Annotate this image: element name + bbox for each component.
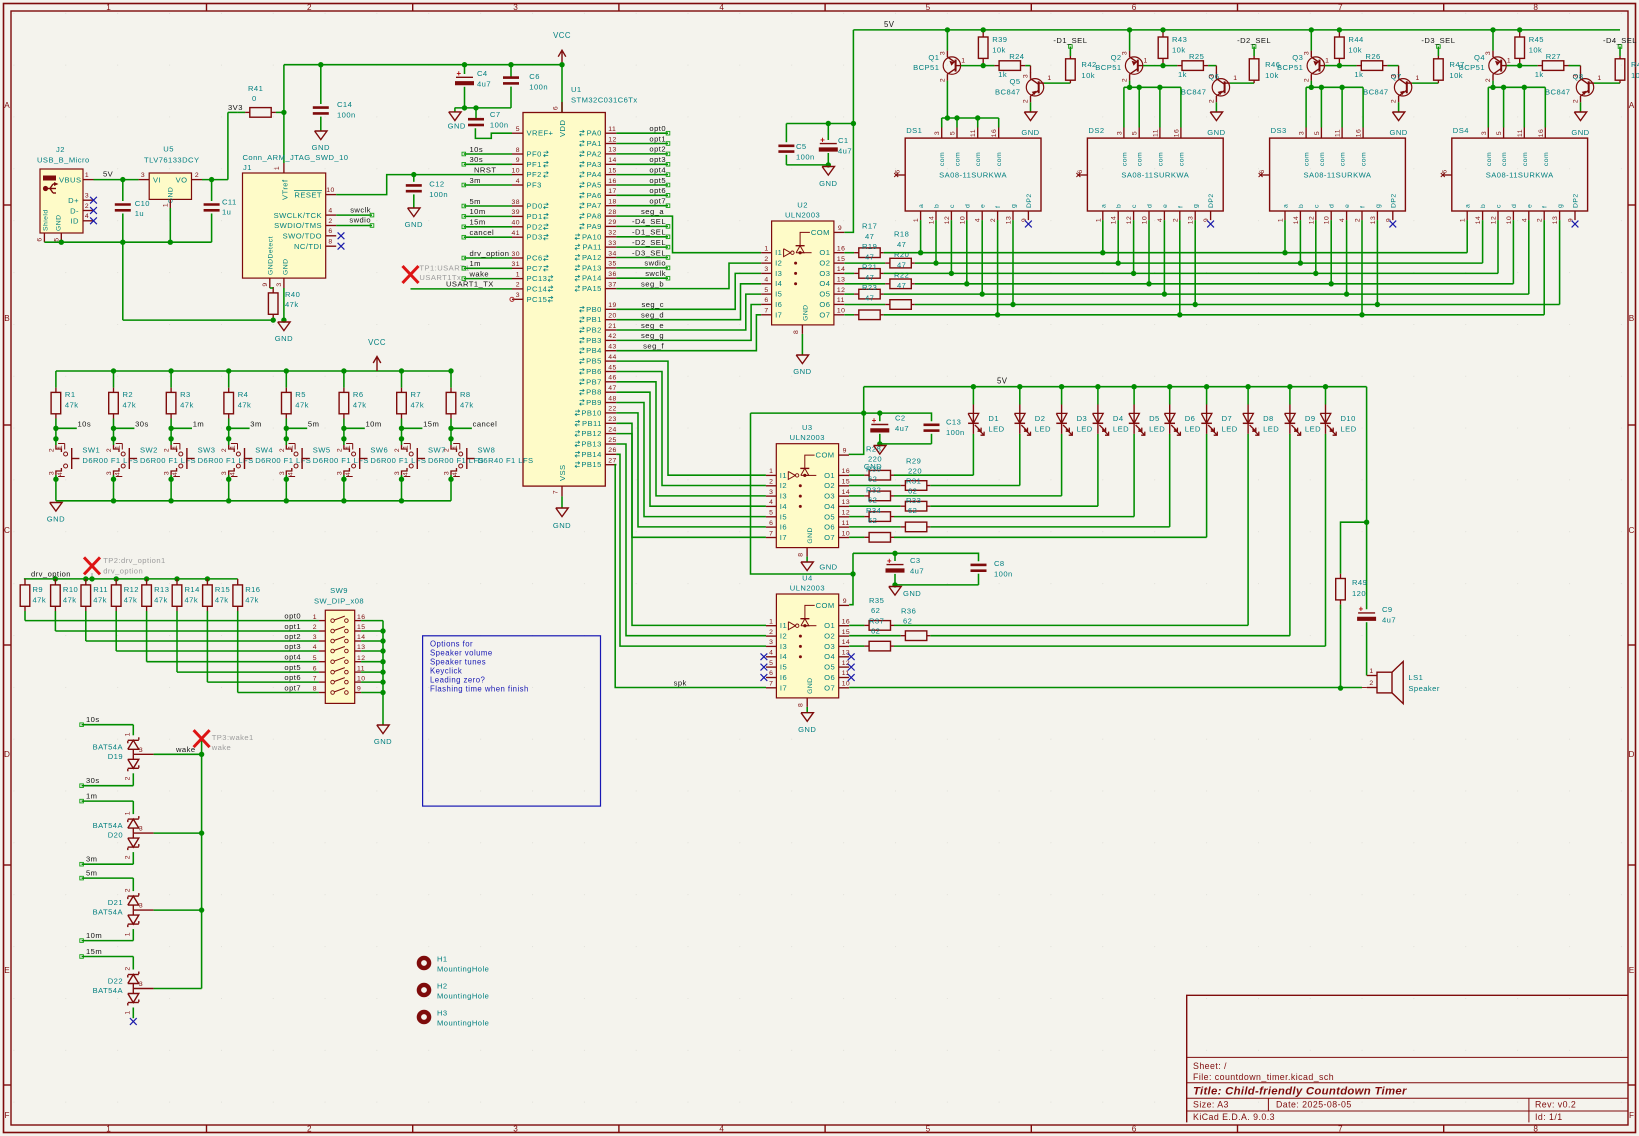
svg-text:31: 31 [512,261,520,268]
svg-text:11: 11 [1517,129,1524,137]
svg-text:4: 4 [1157,218,1164,222]
junction sw vcc 2 [168,368,173,373]
svg-text:-D1_SEL: -D1_SEL [1053,36,1087,45]
svg-text:swdio: swdio [644,259,666,268]
svg-text:20: 20 [608,313,616,320]
svg-text:GND: GND [56,215,63,231]
svg-text:5: 5 [1314,131,1321,135]
svg-text:PB11: PB11 [582,419,602,428]
svg-text:R1: R1 [65,390,76,399]
svg-text:Q3: Q3 [1292,53,1303,62]
svg-text:D6R00 F1 LFS: D6R00 F1 LFS [140,456,196,465]
junction seg row 7 DS2 [1177,312,1182,317]
wire seg row 6 [915,304,1560,306]
svg-text:Options for: Options for [430,640,473,649]
svg-text:GND: GND [807,527,814,543]
wire label 3m diode [80,855,134,866]
resistor R46 10k sel [1249,56,1280,83]
svg-text:PD2: PD2 [527,222,543,231]
svg-text:2: 2 [939,78,946,82]
svg-text:13: 13 [842,499,850,506]
resistor R24 1k [983,52,1030,79]
svg-text:PA5: PA5 [587,181,602,190]
wire label 10s U1 [462,145,512,156]
svg-text:5: 5 [764,287,768,294]
svg-text:D5: D5 [1149,414,1160,423]
ground Q5 [1021,112,1039,137]
transistor Q3 BCP51 [1277,51,1329,83]
svg-text:47k: 47k [65,401,79,410]
svg-text:16: 16 [1356,129,1363,137]
svg-text:3V3: 3V3 [228,103,243,112]
svg-text:3: 3 [764,266,768,273]
svg-text:SW8: SW8 [478,446,496,455]
svg-text:10s: 10s [78,420,92,429]
svg-text:47: 47 [865,294,874,303]
svg-text:R22: R22 [894,271,909,280]
svg-text:Q1: Q1 [928,53,939,62]
wire DS1 seg drop 7 [997,220,999,315]
wire label 1m sw [168,420,204,442]
svg-text:13: 13 [1006,216,1013,224]
svg-text:drv_option: drv_option [31,570,71,579]
svg-text:33: 33 [608,240,616,247]
svg-text:PA13: PA13 [582,263,602,272]
svg-text:15: 15 [357,624,365,631]
resistor R16 47k [233,579,261,693]
junction J1 gnd b [281,317,286,322]
svg-text:I1: I1 [780,471,787,480]
capacitor C3 [853,551,924,585]
svg-text:5: 5 [1132,131,1139,135]
svg-text:I2: I2 [780,632,787,641]
svg-text:VDD: VDD [558,120,567,137]
resistor R26 1k [1339,52,1398,79]
svg-text:R10: R10 [63,585,78,594]
svg-text:PD1: PD1 [527,212,543,221]
svg-text:e: e [1162,204,1169,208]
svg-text:1: 1 [345,445,352,449]
svg-text:7: 7 [553,490,560,494]
svg-text:R36: R36 [901,607,916,616]
svg-text:c: c [1313,204,1320,208]
svg-text:4: 4 [975,218,982,222]
svg-text:12: 12 [944,216,951,224]
svg-text:O4: O4 [824,502,835,511]
svg-text:BCP51: BCP51 [1095,63,1121,72]
svg-text:GND: GND [864,462,882,471]
svg-text:E: E [4,966,10,975]
wire label -D4_SEL U1 [616,217,670,228]
junction seg row 1 DS2 [1100,250,1105,255]
svg-text:MountingHole: MountingHole [437,1019,489,1028]
svg-text:5m: 5m [86,869,97,878]
svg-text:1: 1 [230,445,237,449]
svg-text:2: 2 [221,448,228,452]
svg-text:3: 3 [1481,131,1488,135]
svg-text:A: A [4,101,10,110]
svg-text:O3: O3 [819,269,830,278]
wire label 5m sw [284,420,320,442]
wire DS1 seg drop 2 [935,220,937,263]
svg-text:f: f [1542,206,1549,208]
wire seg row 4 [915,283,1514,285]
svg-text:I2: I2 [775,259,782,268]
svg-text:10: 10 [1142,216,1149,224]
capacitor C10 [115,180,150,243]
svg-text:PA8: PA8 [587,212,602,221]
diode D22 BAT54A [93,957,154,1019]
svg-text:5: 5 [313,655,317,662]
wire PB10 to U3 I6 [616,413,766,527]
wire D9 cathode [1289,434,1291,636]
svg-text:47k: 47k [215,596,229,605]
label R28 [866,445,882,464]
junction seg row 5 DS2 [1162,291,1167,296]
svg-text:15m: 15m [423,420,439,429]
svg-text:3: 3 [1573,74,1580,78]
wire D8 cathode [1247,434,1249,626]
svg-text:3: 3 [139,826,143,833]
ground Q8 [1571,112,1589,137]
svg-text:4: 4 [115,472,122,476]
svg-text:BAT54A: BAT54A [93,821,124,830]
svg-text:1: 1 [115,445,122,449]
wire label opt0 U1 [616,124,670,135]
svg-text:GND: GND [168,187,175,203]
svg-text:47k: 47k [460,401,474,410]
svg-text:14: 14 [1475,216,1482,224]
wire supply cross [751,412,880,414]
svg-text:com: com [1178,152,1185,166]
svg-text:opt6: opt6 [649,186,666,195]
svg-text:10m: 10m [86,931,102,940]
resistor R15 47k [203,579,231,682]
svg-text:4u7: 4u7 [477,80,491,89]
wire label 15m diode [80,947,134,958]
svg-text:11: 11 [1335,129,1342,137]
svg-text:cancel: cancel [473,420,498,429]
svg-text:3: 3 [85,193,89,200]
svg-text:10: 10 [326,187,334,194]
svg-text:1: 1 [1143,58,1147,65]
svg-text:R39: R39 [992,35,1007,44]
svg-text:17: 17 [608,188,616,195]
resistor R6 47k [339,371,366,428]
svg-text:1: 1 [961,58,965,65]
driver U2 ULN2003 [761,201,845,335]
no-connect DS2 DP2 [1207,221,1214,228]
svg-text:GND: GND [312,143,330,152]
svg-text:14: 14 [929,216,936,224]
wire label 30s U1 [462,155,512,166]
svg-text:O7: O7 [824,533,835,542]
svg-text:I4: I4 [775,279,782,288]
wire label -D3_SEL U1 [616,248,670,259]
svg-text:47k: 47k [124,596,138,605]
svg-text:14: 14 [842,639,850,646]
svg-text:3: 3 [221,471,228,475]
wire label opt3 U1 [616,155,670,166]
svg-text:1: 1 [1507,58,1511,65]
svg-text:I4: I4 [780,502,787,511]
svg-text:1: 1 [57,445,64,449]
svg-text:47: 47 [608,385,616,392]
wire com bus DS4 [1488,85,1545,139]
no-connect DS4 DP2 [1572,221,1579,228]
svg-text:9: 9 [843,598,847,605]
resistor R10 47k [51,579,79,631]
svg-text:SW9: SW9 [330,586,348,595]
svg-text:d: d [964,204,971,208]
wire label 5m diode [80,869,134,880]
svg-text:R43: R43 [1172,35,1187,44]
svg-text:1: 1 [1233,75,1237,82]
svg-text:O2: O2 [824,632,835,641]
svg-text:PB1: PB1 [586,315,602,324]
svg-text:3: 3 [139,747,143,754]
svg-text:1k: 1k [1354,70,1363,79]
wire label 10m U1 [462,207,512,218]
svg-text:USART1_TX: USART1_TX [446,280,494,289]
svg-text:VREF+: VREF+ [527,129,554,138]
svg-text:7: 7 [313,675,317,682]
wire RESET to NRST [336,175,512,195]
switch SW7 [394,428,484,501]
resistor R11 47k [81,579,108,641]
label R30 [866,465,881,484]
wire -D4_SEL label stub [1603,36,1637,56]
svg-text:O3: O3 [824,642,835,651]
junction seg row 3 DS3 [1313,271,1318,276]
resistor R18 47 [844,258,914,268]
svg-text:O2: O2 [819,259,830,268]
svg-text:2: 2 [1303,78,1310,82]
svg-text:I6: I6 [775,300,782,309]
svg-text:C: C [4,526,10,535]
svg-text:ID: ID [71,217,80,226]
svg-text:+: + [820,135,825,144]
svg-text:2: 2 [1485,78,1492,82]
svg-text:PA1: PA1 [587,139,602,148]
svg-text:BCP51: BCP51 [1459,63,1485,72]
svg-text:DP2: DP2 [1208,193,1215,208]
svg-text:O2: O2 [824,481,835,490]
svg-text:10m: 10m [470,207,486,216]
svg-text:1: 1 [516,271,520,278]
svg-text:GND: GND [283,259,290,275]
label R22 [894,271,909,291]
svg-text:C6: C6 [529,72,540,81]
svg-text:seg_g: seg_g [641,331,664,340]
wire gnd drop left [123,242,273,320]
svg-text:STM32C031C6Tx: STM32C031C6Tx [571,96,638,105]
svg-text:47: 47 [865,273,874,282]
svg-text:4: 4 [230,472,237,476]
wire drv_option bus [24,578,238,580]
wire Q2 collector bus [1129,81,1131,88]
svg-text:PB12: PB12 [581,429,601,438]
svg-text:62: 62 [871,627,880,636]
svg-text:5V: 5V [884,20,895,29]
svg-text:PB4: PB4 [586,346,602,355]
svg-text:I7: I7 [780,533,787,542]
svg-text:R15: R15 [215,585,230,594]
svg-text:4: 4 [769,650,773,657]
svg-text:3: 3 [139,903,143,910]
svg-text:10k: 10k [1172,46,1186,55]
transistor Q8 BC847 [1545,72,1602,103]
svg-text:D9: D9 [1305,414,1316,423]
svg-text:R6: R6 [353,390,364,399]
svg-text:VI: VI [153,176,161,185]
connector J1 Conn_ARM_JTAG_SWD_10 [243,153,349,288]
svg-text:H2: H2 [437,982,448,991]
svg-text:swdio: swdio [349,216,371,225]
wire label cancel U1 [462,228,512,239]
svg-text:12: 12 [837,287,845,294]
svg-text:9: 9 [1203,218,1210,222]
svg-text:24: 24 [608,426,616,433]
svg-text:47: 47 [865,232,874,241]
svg-text:com: com [1522,152,1529,166]
svg-text:9: 9 [838,225,842,232]
svg-text:O1: O1 [819,248,830,257]
svg-text:opt5: opt5 [649,176,666,185]
ground Q6 [1207,112,1225,137]
svg-text:R24: R24 [1009,52,1024,61]
svg-text:3: 3 [279,471,286,475]
svg-text:2: 2 [85,203,89,210]
svg-text:Leading zero?: Leading zero? [430,676,485,685]
svg-text:220: 220 [908,467,922,476]
svg-text:PB10: PB10 [581,408,601,417]
mounting hole H3 [417,1009,490,1028]
svg-text:I5: I5 [780,512,787,521]
wire VBUS 5V [94,170,139,180]
display DS1 SA08-11SURKWA [894,126,1041,224]
transistor Q2 BCP51 [1095,51,1147,83]
svg-text:2: 2 [125,888,132,892]
svg-text:I3: I3 [780,642,787,651]
svg-text:34: 34 [608,250,616,257]
svg-text:H1: H1 [437,955,448,964]
svg-text:13: 13 [837,277,845,284]
wire D4 cathode [1097,434,1099,506]
ground C4C6 [448,108,466,131]
mcu U1 STM32C031C6Tx [512,85,638,496]
svg-text:4: 4 [719,1125,724,1134]
svg-text:R33: R33 [906,496,921,505]
svg-text:10k: 10k [992,46,1006,55]
svg-text:15: 15 [842,479,850,486]
svg-text:2: 2 [307,3,312,12]
svg-text:19: 19 [608,302,616,309]
svg-text:SW4: SW4 [255,446,273,455]
svg-text:-D3_SEL: -D3_SEL [1421,36,1455,45]
wire Q5 collector [1030,66,1032,73]
svg-text:C13: C13 [946,418,961,427]
svg-text:10: 10 [842,530,850,537]
switch SW6 [336,428,426,501]
svg-text:R37: R37 [869,617,884,626]
svg-text:PB13: PB13 [581,440,601,449]
svg-text:1u: 1u [135,209,144,218]
led D8 [1243,384,1279,435]
svg-text:28: 28 [608,209,616,216]
svg-text:VSS: VSS [558,464,567,481]
wire DS1 seg drop 6 [1012,220,1014,304]
label R31 [906,477,921,496]
wire C5 C1 bottom [786,162,831,167]
svg-text:6: 6 [328,228,332,235]
svg-text:12: 12 [842,510,850,517]
wire Q5 emitter gnd [1030,102,1032,112]
svg-text:45: 45 [608,364,616,371]
svg-text:opt5: opt5 [284,663,301,672]
junction seg row 4 DS3 [1329,281,1334,286]
svg-text:10s: 10s [470,145,484,154]
svg-text:13: 13 [1370,216,1377,224]
svg-text:7: 7 [769,681,773,688]
svg-text:1: 1 [287,445,294,449]
junction sw vcc 6 [399,368,404,373]
resistor R28 [849,470,973,480]
svg-text:47: 47 [897,281,906,290]
junction sw vcc 1 [111,368,116,373]
junction C6 top [508,62,513,67]
junction seg row 5 DS1 [980,291,985,296]
svg-text:opt1: opt1 [284,622,301,631]
wire PB14 to U4 [616,454,766,646]
resistor R3 47k [166,371,193,428]
svg-text:47: 47 [865,253,874,262]
svg-text:C10: C10 [135,199,150,208]
wire Q2 base node [1143,63,1166,68]
svg-text:11: 11 [357,665,365,672]
label drv_option bus [31,570,71,579]
svg-text:SA08-11SURKWA: SA08-11SURKWA [1486,171,1554,180]
wire DS1 seg drop 3 [950,220,952,273]
resistor R5 47k [282,371,309,428]
svg-text:6: 6 [37,237,44,241]
svg-text:PD3: PD3 [527,233,543,242]
svg-text:5: 5 [926,3,931,12]
resistor R32 [849,512,1134,522]
junction C10 top [120,177,125,182]
svg-text:100n: 100n [490,121,509,130]
svg-text:47: 47 [897,261,906,270]
resistor R23 47 [844,310,883,320]
svg-text:+: + [887,556,892,565]
wire swclk label [336,205,374,217]
ground switch rail [47,503,65,524]
wire label swdio U1 [616,259,670,270]
resistor R29 [849,481,1020,491]
svg-text:B: B [1629,314,1635,323]
svg-text:Q5: Q5 [1009,77,1020,86]
svg-text:2: 2 [769,629,773,636]
svg-text:PF1: PF1 [527,160,542,169]
label R32 [866,486,881,505]
svg-text:2: 2 [1391,99,1398,103]
resistor R43 10k [1158,27,1187,65]
svg-text:1: 1 [1278,218,1285,222]
wire DS1 seg drop 4 [966,220,968,284]
svg-text:14: 14 [837,266,845,273]
svg-text:41: 41 [512,230,520,237]
svg-text:10k: 10k [1449,71,1463,80]
